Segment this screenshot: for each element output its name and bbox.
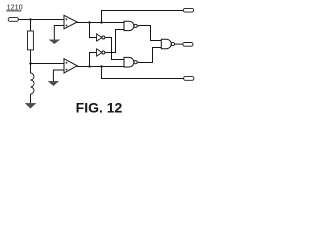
wire node A down to inverter I1 bbox=[90, 23, 97, 38]
node B bbox=[100, 21, 102, 23]
ground arrow at U2 bbox=[48, 81, 59, 86]
svg-text:1210: 1210 bbox=[7, 3, 23, 12]
wire buffer U2 reference to ground bbox=[53, 70, 64, 81]
wire junction down to resistor bbox=[30, 20, 32, 32]
wire G3 output to terminal bbox=[175, 43, 183, 45]
wire G2 output to NAND G3 input bbox=[137, 48, 161, 63]
inductor L1 bbox=[31, 73, 35, 94]
wire U2 output to NAND G2 bbox=[77, 66, 124, 68]
node input junction bbox=[29, 18, 31, 20]
wire U1 output to NAND G1 bbox=[77, 22, 124, 24]
ground arrow below inductor bbox=[25, 103, 36, 108]
op-amp buffer U1 bbox=[64, 15, 77, 28]
node A bbox=[88, 21, 90, 23]
node lower junction bbox=[29, 62, 31, 64]
wire node B up to top output terminal bbox=[102, 11, 184, 23]
output terminal bottom bbox=[184, 77, 194, 81]
wire inductor to ground bbox=[30, 94, 32, 103]
wire U1 reference input to ground bbox=[54, 26, 64, 40]
resistor R1 bbox=[28, 31, 34, 50]
wire resistor to lower node bbox=[30, 50, 32, 64]
wire node C up to inverter I2 bbox=[90, 53, 97, 67]
nand gate G2 bbox=[124, 57, 134, 67]
nand gate G3 bbox=[161, 39, 171, 48]
wire G1 output to NAND G3 input bbox=[137, 26, 161, 41]
output terminal middle bbox=[183, 43, 193, 47]
nand gate G1 bbox=[124, 21, 134, 30]
inverter I1 bbox=[97, 34, 102, 41]
wire I1 output to NAND G2 input bbox=[105, 38, 124, 60]
output terminal top bbox=[183, 8, 193, 12]
svg-text:FIG. 12: FIG. 12 bbox=[76, 99, 123, 115]
input terminal bbox=[8, 18, 18, 22]
wire node down to inductor bbox=[30, 64, 32, 74]
inverter I2 bbox=[97, 49, 102, 56]
wire input to buffer U1 bbox=[18, 19, 64, 21]
op-amp buffer U2 bbox=[64, 59, 77, 73]
node D bbox=[100, 65, 102, 67]
wire I2 output to NAND G1 input bbox=[105, 30, 124, 53]
ground arrow at U1 bbox=[49, 40, 60, 44]
wire node D down to bottom output terminal bbox=[102, 67, 184, 79]
wire node to buffer U2 bbox=[31, 63, 65, 65]
node C bbox=[88, 65, 90, 67]
